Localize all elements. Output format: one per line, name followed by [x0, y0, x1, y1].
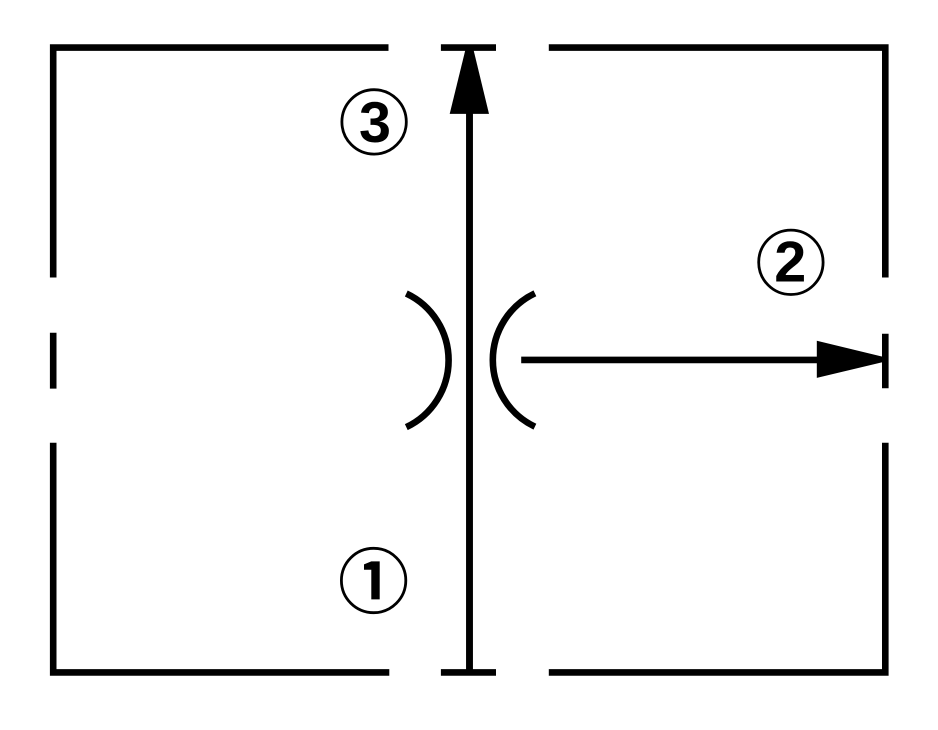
orifice right arc — [493, 293, 535, 426]
node 1 label text (drawn glyph) — [364, 561, 380, 599]
wire horizontal flow line (to port 2) — [521, 357, 818, 364]
wire vertical flow line (1 to 3) — [466, 112, 473, 672]
envelope top center dash (port 3) — [441, 44, 496, 51]
envelope right center dash (port 2) — [882, 334, 889, 389]
envelope bottom center dash (port 1) — [441, 669, 496, 676]
svg-text:3: 3 — [359, 91, 391, 155]
envelope top-left corner segment — [53, 48, 388, 278]
envelope left center dash — [50, 333, 57, 389]
arrowhead up (port 3) — [450, 50, 489, 114]
envelope bottom-right corner segment — [549, 443, 886, 673]
node 3 label circle — [342, 90, 406, 154]
orifice left arc — [406, 294, 448, 428]
svg-text:2: 2 — [774, 231, 806, 295]
envelope bottom-left corner segment — [53, 443, 389, 673]
arrowhead right (port 2) — [817, 341, 883, 378]
envelope top-right corner segment — [549, 48, 886, 278]
node 1 label circle — [341, 548, 405, 612]
node 2 label circle — [759, 230, 823, 294]
